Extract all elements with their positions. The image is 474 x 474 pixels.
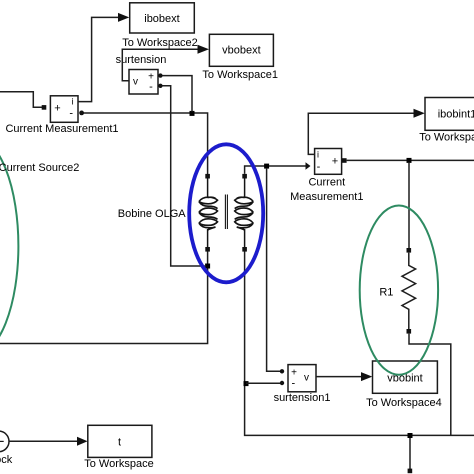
wire bottom rail drop to port below <box>409 438 411 469</box>
wire right winding top to Current Measurement1 (right) - input <box>245 166 306 174</box>
svg-text:i: i <box>72 97 74 107</box>
port circle surtension1 - <box>280 381 284 385</box>
port square CM1 + input <box>42 105 47 110</box>
svg-text:-: - <box>317 161 321 173</box>
block vbobext (To Workspace1) <box>209 34 273 66</box>
block voltage measurement surtension <box>129 70 158 95</box>
transformer right winding port top <box>242 174 247 179</box>
block Current Measurement1 (left) <box>50 96 78 123</box>
port square CM right + output <box>342 158 347 163</box>
svg-text:To Workspace3: To Workspace3 <box>419 132 474 144</box>
svg-text:t: t <box>118 436 121 448</box>
transformer left winding <box>199 179 218 248</box>
block vbobint (To Workspace4) <box>373 361 438 393</box>
block voltage measurement surtension1 <box>288 365 316 392</box>
junction node surtension1 - tap <box>244 381 249 386</box>
junction node left winding bottom <box>205 264 210 269</box>
svg-text:ibobext: ibobext <box>144 13 179 25</box>
wire R1 bottom to bottom rail <box>409 334 451 436</box>
svg-text:surtension1: surtension1 <box>274 392 331 404</box>
wire surtension v output to vbobext <box>122 49 198 80</box>
svg-text:Current: Current <box>308 176 345 188</box>
svg-text:-: - <box>291 378 295 390</box>
svg-text:surtension: surtension <box>116 54 167 66</box>
annotation blue ellipse around Bobine OLGA <box>189 144 263 282</box>
svg-text:v: v <box>304 372 309 383</box>
svg-text:R1: R1 <box>379 286 393 298</box>
clock block (clipped at left edge) <box>0 431 9 452</box>
port dot CM1 output <box>79 111 84 116</box>
block Current Measurement1 (right) <box>315 149 342 175</box>
svg-text:ibobint1: ibobint1 <box>438 108 474 120</box>
port arrow CM right - input <box>306 162 311 170</box>
svg-text:Bobine OLGA: Bobine OLGA <box>118 208 187 220</box>
svg-text:i: i <box>317 150 319 160</box>
junction node right winding top tap <box>264 164 269 169</box>
arrowhead into t block <box>77 437 88 446</box>
wire CM right output to right edge <box>347 159 474 161</box>
junction node on bottom rail <box>408 433 413 438</box>
svg-text:To Workspace1: To Workspace1 <box>202 69 278 81</box>
port circle surtension + <box>158 73 162 77</box>
svg-text:Measurement1: Measurement1 <box>290 191 363 203</box>
wire clock to To Workspace t block <box>9 440 78 442</box>
wire surtension + to node <box>162 76 192 112</box>
svg-text:v: v <box>133 77 138 88</box>
wire right winding bottom down to bottom rail and right edge <box>245 251 474 435</box>
junction node surtension + tap <box>190 111 195 116</box>
port circle surtension1 + <box>280 369 284 373</box>
svg-text:To Workspace4: To Workspace4 <box>366 397 442 409</box>
svg-text:vbobext: vbobext <box>222 44 261 56</box>
wire CM1 i output to ibobext <box>78 17 119 101</box>
annotation green ellipse around current source (left edge) <box>0 137 18 355</box>
transformer right winding <box>235 179 254 248</box>
svg-text:Current Measurement1: Current Measurement1 <box>5 123 118 135</box>
wire node down to R1 <box>408 163 410 248</box>
transformer core <box>225 195 227 230</box>
junction node R1 top tap <box>407 158 412 163</box>
wire left winding bottom to bottom-left rail <box>0 251 208 343</box>
wire surtension - down to left winding bottom node <box>162 86 205 266</box>
wire CM right i output to ibobint <box>308 113 414 154</box>
annotation green ellipse around R1 <box>360 206 438 375</box>
port square at bottom drop <box>408 469 413 474</box>
wire from current source to Current Measurement1 + input <box>0 92 42 108</box>
wire surtension1 v output to vbobint <box>316 376 362 378</box>
arrowhead into vbobext <box>198 45 210 54</box>
port circle surtension - <box>158 84 162 88</box>
arrowhead into vbobint <box>361 372 372 381</box>
transformer left winding port bottom <box>205 247 210 252</box>
block ibobext (To Workspace2) <box>130 3 195 33</box>
svg-text:To Workspace2: To Workspace2 <box>122 37 198 49</box>
svg-text:+: + <box>54 103 60 115</box>
resistor R1 <box>402 248 416 334</box>
svg-text:-: - <box>69 107 73 119</box>
svg-text:-: - <box>149 81 153 93</box>
block ibobint (To Workspace3, clipped at right edge) <box>425 98 474 131</box>
wire CM1 - output to transformer left winding top <box>84 113 208 174</box>
arrowhead into ibobint <box>414 109 425 118</box>
transformer right winding port bottom <box>242 247 247 252</box>
svg-text:Current Source2: Current Source2 <box>0 162 79 174</box>
svg-text:Clock: Clock <box>0 454 13 466</box>
wire right winding top node down to surtension1 + input <box>267 169 280 372</box>
transformer Bobine OLGA left winding port top <box>205 174 210 179</box>
svg-text:+: + <box>332 156 338 168</box>
arrowhead into ibobext <box>118 13 129 22</box>
svg-text:To Workspace: To Workspace <box>84 458 154 470</box>
wire node to surtension1 - input <box>246 382 280 384</box>
block t (To Workspace) <box>88 425 152 457</box>
